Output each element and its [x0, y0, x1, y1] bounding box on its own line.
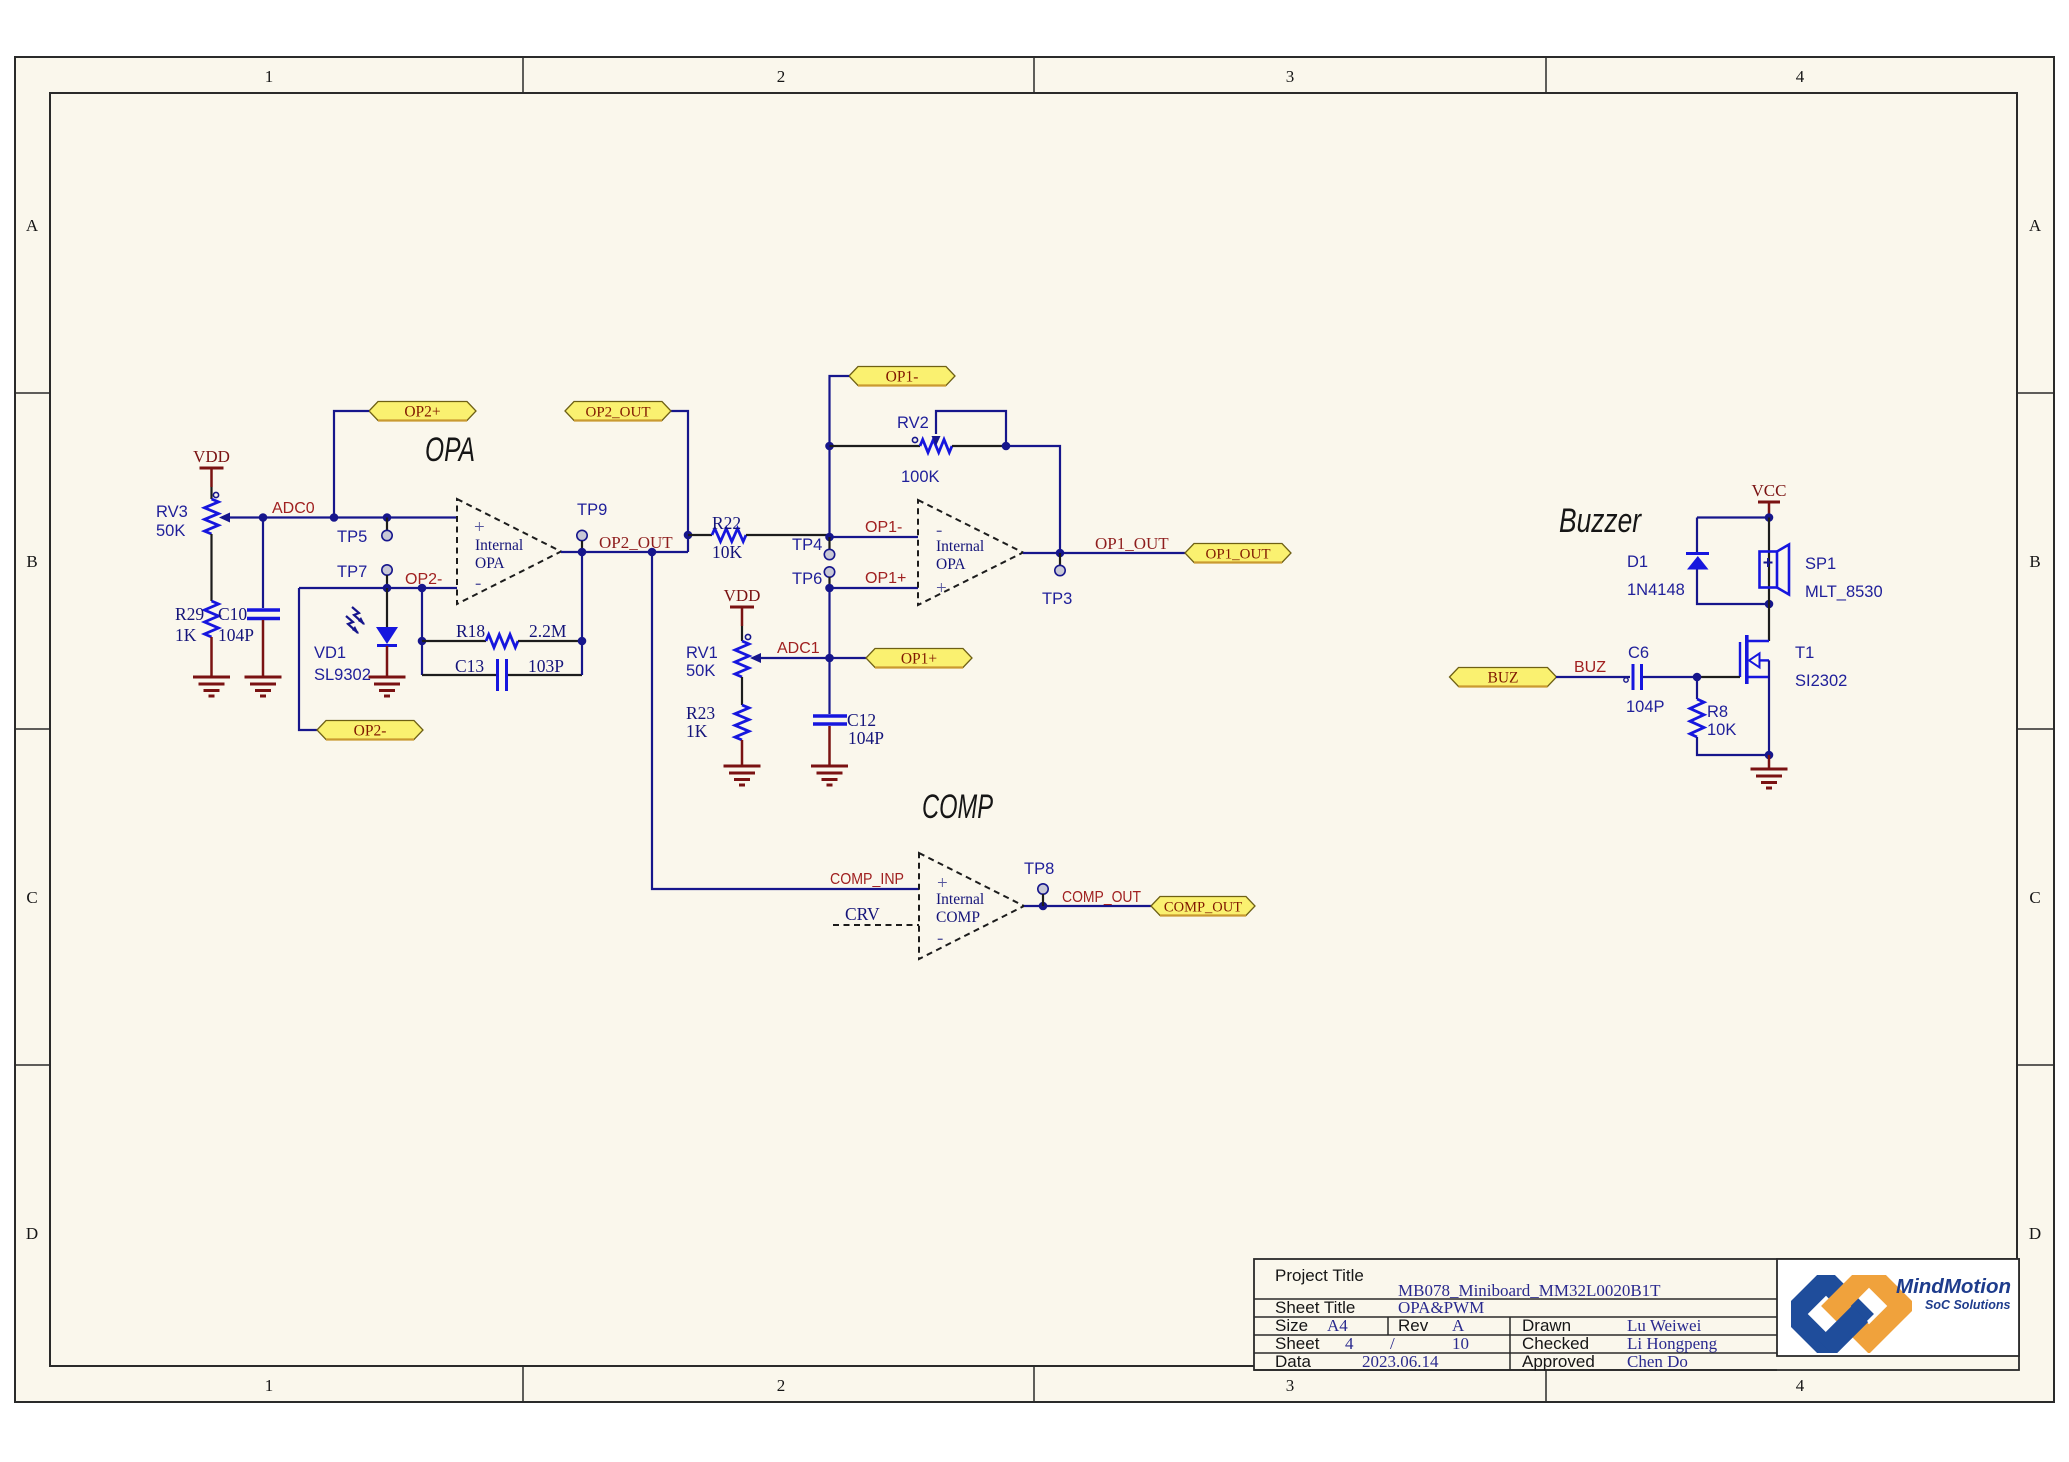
wire ADC1 net — [756, 654, 866, 663]
wire R8 to source node — [1697, 737, 1769, 755]
svg-text:10K: 10K — [712, 542, 743, 562]
wire OP2+ flag to ADC0 — [334, 411, 369, 518]
wire RV1 to R23 — [741, 677, 743, 705]
svg-text:104P: 104P — [848, 728, 884, 748]
svg-text:TP4: TP4 — [792, 536, 822, 554]
svg-text:OP2-: OP2- — [354, 723, 387, 740]
photodiode VD1 SL9302 — [314, 588, 398, 684]
speaker SP1 MLT_8530 — [1760, 545, 1883, 602]
svg-text:Project Title: Project Title — [1275, 1266, 1364, 1285]
svg-text:A: A — [1452, 1316, 1465, 1335]
wire C10 to ground — [262, 620, 265, 677]
svg-text:2: 2 — [777, 1376, 786, 1395]
wire CRV (dashed) — [833, 924, 919, 926]
wire OP1- flag down — [825, 376, 849, 541]
svg-text:/: / — [1390, 1334, 1395, 1353]
svg-text:SI2302: SI2302 — [1795, 672, 1847, 690]
wire D1 to drain node — [1697, 570, 1773, 609]
svg-text:Buzzer: Buzzer — [1559, 502, 1642, 540]
svg-text:104P: 104P — [218, 625, 254, 645]
svg-text:RV1: RV1 — [686, 644, 718, 662]
svg-text:ADC1: ADC1 — [777, 640, 820, 657]
wire to OP2_OUT flag — [671, 411, 692, 552]
test point TP3 — [1042, 553, 1072, 608]
ground (R23) — [724, 766, 761, 785]
svg-text:103P: 103P — [528, 656, 564, 676]
svg-text:4: 4 — [1796, 67, 1805, 86]
svg-text:B: B — [26, 552, 37, 571]
svg-text:C: C — [2029, 888, 2040, 907]
svg-text:A: A — [2029, 216, 2042, 235]
resistor R29 1K — [175, 601, 219, 645]
wire ADC0 net — [230, 513, 457, 522]
power VCC — [1752, 481, 1787, 518]
svg-text:TP7: TP7 — [337, 563, 367, 581]
svg-text:COMP: COMP — [922, 788, 993, 826]
svg-text:Sheet Title: Sheet Title — [1275, 1298, 1355, 1317]
wire VDD to RV3 — [210, 487, 212, 499]
svg-text:Internal: Internal — [475, 537, 523, 554]
port flag COMP_OUT — [1151, 897, 1255, 916]
svg-text:RV2: RV2 — [897, 414, 929, 432]
port flag OP1- — [849, 367, 955, 386]
wire VCC to speaker — [1768, 518, 1770, 642]
svg-text:COMP_OUT: COMP_OUT — [1164, 900, 1242, 916]
svg-text:1K: 1K — [686, 721, 708, 741]
svg-text:BUZ: BUZ — [1488, 670, 1519, 687]
svg-text:OP1+: OP1+ — [901, 651, 937, 668]
svg-text:-: - — [937, 928, 943, 949]
wire OP2_OUT net — [561, 548, 688, 557]
svg-text:Approved: Approved — [1522, 1352, 1595, 1371]
wire VDD to RV1 — [741, 626, 743, 641]
port flag BUZ — [1450, 668, 1557, 687]
capacitor C12 104P — [813, 588, 884, 748]
svg-text:COMP: COMP — [936, 909, 980, 926]
svg-text:MLT_8530: MLT_8530 — [1805, 583, 1883, 601]
capacitor C13 103P — [422, 656, 582, 691]
svg-text:+: + — [474, 517, 485, 538]
svg-text:OPA&PWM: OPA&PWM — [1398, 1298, 1484, 1317]
capacitor C10 104P — [218, 518, 280, 646]
wire OP2- net — [299, 584, 457, 593]
wire RV2 to output — [1006, 446, 1060, 553]
svg-text:B: B — [2029, 552, 2040, 571]
wire OP1_OUT net — [1023, 549, 1185, 558]
test point TP5 — [337, 518, 392, 547]
svg-text:VCC: VCC — [1752, 481, 1787, 500]
svg-text:OP1_OUT: OP1_OUT — [1095, 534, 1169, 553]
resistor R23 1K — [686, 703, 749, 741]
svg-text:A: A — [26, 216, 39, 235]
svg-text:TP8: TP8 — [1024, 860, 1054, 878]
wire COMP_OUT net — [1024, 902, 1151, 911]
test point TP8 — [1024, 860, 1054, 906]
test point TP4 — [792, 536, 835, 560]
svg-text:2: 2 — [777, 67, 786, 86]
svg-text:C: C — [26, 888, 37, 907]
ground (C10) — [245, 677, 282, 696]
svg-text:OP1+: OP1+ — [865, 570, 906, 587]
ground (RV3/R29) — [193, 677, 230, 696]
test point TP6 — [792, 567, 835, 588]
svg-text:OP2_OUT: OP2_OUT — [599, 533, 673, 552]
wire COMP_INP net — [652, 552, 919, 889]
resistor R18 2.2M — [422, 621, 582, 648]
svg-text:Chen Do: Chen Do — [1627, 1352, 1688, 1371]
svg-text:TP5: TP5 — [337, 528, 367, 546]
svg-text:Rev: Rev — [1398, 1316, 1429, 1335]
svg-text:4: 4 — [1345, 1334, 1354, 1353]
capacitor C6 104P — [1624, 644, 1665, 716]
svg-text:+: + — [936, 578, 947, 599]
svg-text:VDD: VDD — [193, 447, 230, 466]
svg-text:R18: R18 — [456, 621, 485, 641]
svg-text:50K: 50K — [156, 522, 185, 540]
power VDD (RV3) — [193, 447, 230, 487]
port flag OP1+ — [866, 649, 972, 668]
svg-text:D: D — [26, 1224, 38, 1243]
svg-text:-: - — [475, 573, 481, 594]
test point TP9 — [577, 501, 607, 552]
svg-text:C12: C12 — [847, 710, 876, 730]
svg-text:OP1-: OP1- — [865, 519, 902, 536]
svg-text:OP1_OUT: OP1_OUT — [1205, 547, 1270, 563]
MindMotion logo — [1793, 1273, 2011, 1348]
svg-text:OPA: OPA — [425, 431, 475, 469]
svg-text:OP1-: OP1- — [886, 369, 919, 386]
wire OP1- input — [830, 536, 919, 538]
svg-text:Internal: Internal — [936, 538, 984, 555]
svg-text:OP2+: OP2+ — [404, 404, 440, 421]
svg-text:CRV: CRV — [845, 904, 880, 924]
svg-text:100K: 100K — [901, 468, 940, 486]
svg-text:OPA: OPA — [936, 556, 966, 573]
svg-text:Internal: Internal — [936, 891, 984, 908]
svg-text:COMP_INP: COMP_INP — [830, 871, 904, 888]
wire R29 to ground — [210, 637, 213, 677]
svg-text:C10: C10 — [218, 604, 247, 624]
wire OP2- to flag — [299, 588, 317, 730]
svg-text:1: 1 — [265, 67, 274, 86]
svg-text:SL9302: SL9302 — [314, 666, 371, 684]
wire R23 to ground — [741, 740, 744, 766]
svg-text:OPA: OPA — [475, 555, 505, 572]
title block texts — [1275, 1266, 1718, 1371]
svg-text:50K: 50K — [686, 662, 715, 680]
wire VD1 to ground — [386, 646, 389, 677]
svg-text:A4: A4 — [1327, 1316, 1348, 1335]
svg-text:1K: 1K — [175, 625, 197, 645]
comparator U-COMP (Internal COMP) — [919, 853, 1024, 959]
svg-text:104P: 104P — [1626, 698, 1665, 716]
port flag OP2- — [317, 721, 423, 740]
svg-text:ADC0: ADC0 — [272, 500, 315, 517]
svg-text:TP9: TP9 — [577, 501, 607, 519]
port flag OP2+ — [369, 402, 476, 421]
svg-text:MindMotion: MindMotion — [1896, 1275, 2011, 1298]
port flag OP1_OUT — [1185, 544, 1291, 563]
svg-text:2.2M: 2.2M — [529, 621, 567, 641]
svg-text:C6: C6 — [1628, 644, 1649, 662]
wire source down — [1765, 660, 1774, 759]
wire OP1+ input — [825, 584, 918, 593]
wire feedback to output — [578, 553, 587, 675]
svg-text:4: 4 — [1796, 1376, 1805, 1395]
wire C6 to gate — [1643, 673, 1740, 682]
svg-text:OP2-: OP2- — [405, 571, 442, 588]
svg-text:T1: T1 — [1795, 644, 1814, 662]
svg-text:Data: Data — [1275, 1352, 1311, 1371]
potentiometer RV1 50K — [686, 634, 761, 680]
svg-text:SoC Solutions: SoC Solutions — [1925, 1298, 2010, 1312]
svg-text:TP3: TP3 — [1042, 590, 1072, 608]
potentiometer RV2 100K — [830, 411, 1011, 486]
potentiometer RV3 50K — [156, 492, 230, 540]
wire VCC node — [1697, 513, 1773, 522]
svg-text:R29: R29 — [175, 604, 204, 624]
svg-text:Size: Size — [1275, 1316, 1308, 1335]
svg-text:Li Hongpeng: Li Hongpeng — [1627, 1334, 1718, 1353]
svg-text:10: 10 — [1452, 1334, 1469, 1353]
svg-text:1N4148: 1N4148 — [1627, 581, 1685, 599]
ground (VD1) — [369, 677, 406, 696]
test point TP7 — [337, 563, 392, 588]
resistor R22 10K — [688, 513, 830, 562]
ground (buzzer) — [1751, 769, 1788, 788]
svg-text:SP1: SP1 — [1805, 555, 1836, 573]
svg-text:Checked: Checked — [1522, 1334, 1589, 1353]
svg-text:Drawn: Drawn — [1522, 1316, 1571, 1335]
op-amp U-OPA1 (Internal OPA) — [918, 500, 1023, 605]
svg-text:OP2_OUT: OP2_OUT — [585, 405, 650, 421]
svg-text:RV3: RV3 — [156, 503, 188, 521]
svg-text:1: 1 — [265, 1376, 274, 1395]
svg-text:D1: D1 — [1627, 553, 1648, 571]
port flag OP2_OUT — [565, 402, 671, 421]
svg-text:VD1: VD1 — [314, 644, 346, 662]
svg-text:VDD: VDD — [724, 586, 761, 605]
svg-text:R23: R23 — [686, 703, 715, 723]
svg-text:R8: R8 — [1707, 703, 1728, 721]
diode D1 1N4148 — [1627, 553, 1709, 599]
svg-text:10K: 10K — [1707, 721, 1736, 739]
svg-text:TP6: TP6 — [792, 570, 822, 588]
power VDD (RV1) — [724, 586, 761, 626]
wire C12 to ground — [828, 726, 831, 766]
wire source to ground — [1768, 755, 1771, 769]
svg-text:COMP_OUT: COMP_OUT — [1062, 889, 1141, 906]
svg-text:3: 3 — [1286, 1376, 1295, 1395]
svg-text:R22: R22 — [712, 513, 741, 533]
wire D1 branch left — [1696, 518, 1698, 554]
ground (C12) — [811, 766, 848, 785]
feedback branch wire — [418, 588, 427, 675]
transistor T1 SI2302 — [1740, 635, 1847, 690]
op-amp U-OPA2 (Internal OPA) — [457, 499, 561, 604]
resistor R8 10K — [1690, 677, 1736, 739]
svg-text:3: 3 — [1286, 67, 1295, 86]
svg-text:BUZ: BUZ — [1574, 659, 1606, 676]
wire RV3 to R29 — [210, 534, 212, 601]
svg-text:2023.06.14: 2023.06.14 — [1362, 1352, 1439, 1371]
wire BUZ to C6 — [1556, 676, 1630, 678]
title block table — [1254, 1259, 2019, 1370]
svg-text:C13: C13 — [455, 656, 484, 676]
svg-text:Lu Weiwei: Lu Weiwei — [1627, 1316, 1702, 1335]
svg-text:Sheet: Sheet — [1275, 1334, 1320, 1353]
svg-text:D: D — [2029, 1224, 2041, 1243]
